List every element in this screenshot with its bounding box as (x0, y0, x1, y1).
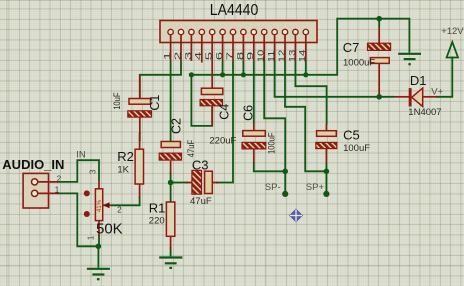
capacitor C2 (159, 142, 181, 175)
svg-text:10: 10 (257, 49, 266, 62)
wire connector pin2 to pot pin3 (57, 160, 99, 182)
capacitor C5 (316, 125, 337, 164)
wire pin8 stub (242, 61, 244, 75)
wire pin13 to C5 top (295, 61, 326, 125)
svg-text:1000uF: 1000uF (343, 58, 375, 69)
wire pin12 to SP+ (285, 61, 326, 171)
svg-text:1: 1 (55, 185, 60, 194)
wire pin6 stub (222, 61, 224, 75)
wire C2 bottom junction to R1 (170, 172, 172, 202)
wire pin1 to C2 (170, 61, 172, 142)
wire C5 bottom junction (325, 163, 327, 171)
wire B: pin3 to top-right ground rail (191, 19, 409, 75)
svg-text:2: 2 (173, 52, 182, 61)
svg-text:C4: C4 (217, 104, 231, 120)
svg-text:13: 13 (288, 49, 297, 62)
wire pin7 to C3 right (216, 61, 233, 183)
capacitor C7 (368, 27, 391, 97)
wire C7 top tap (378, 19, 380, 27)
svg-text:LA4440: LA4440 (210, 1, 259, 19)
ground (under R1) (159, 258, 182, 268)
diode D1 (394, 88, 437, 106)
svg-text:IN: IN (76, 150, 86, 161)
red dot marker upper (84, 190, 90, 196)
svg-text:9: 9 (246, 52, 255, 61)
svg-text:3: 3 (184, 52, 193, 61)
svg-text:C1: C1 (148, 95, 162, 111)
capacitor C1 (128, 75, 152, 134)
svg-text:SP+: SP+ (306, 182, 325, 193)
svg-text:3: 3 (87, 169, 97, 174)
wire A: C1 top to pin2 (140, 61, 181, 99)
wire pin14 stub (305, 61, 307, 75)
connector J1 AUDIO_IN (23, 173, 58, 208)
wire SP+ stub (325, 171, 327, 193)
wire pot bottom (98, 235, 100, 246)
svg-text:41%: 41% (97, 199, 103, 212)
svg-text:220uF: 220uF (209, 135, 236, 146)
svg-text:10uF: 10uF (111, 92, 122, 109)
svg-text:5: 5 (204, 52, 213, 61)
SP- terminal dot (282, 191, 288, 197)
resistor R2 (135, 134, 143, 198)
red dot marker lower (84, 211, 90, 217)
wire pin10 to SP- (264, 61, 285, 171)
capacitor C4 (200, 88, 223, 126)
wire R2 bottom to pot wiper (111, 196, 140, 205)
resistor R1 (166, 202, 174, 249)
svg-text:8: 8 (236, 52, 245, 61)
svg-text:100uF: 100uF (343, 143, 370, 154)
svg-text:R1: R1 (149, 201, 166, 216)
wire pin9 to C6 top (253, 61, 255, 124)
svg-text:220: 220 (149, 215, 165, 226)
svg-text:D1: D1 (410, 73, 427, 88)
svg-text:1K: 1K (117, 164, 129, 175)
pin leads 1-14 (171, 35, 306, 88)
svg-text:C6: C6 (242, 105, 256, 121)
wire junction to C3 left (171, 182, 188, 184)
wire D1 right to +12V (436, 75, 452, 97)
svg-text:2: 2 (117, 206, 122, 215)
svg-text:14: 14 (299, 49, 308, 62)
+12V power terminal (447, 42, 458, 75)
svg-text:SP-: SP- (265, 182, 281, 193)
capacitor C3 (186, 170, 218, 194)
svg-text:AUDIO_IN: AUDIO_IN (2, 157, 64, 172)
pin circles (168, 29, 309, 34)
wire pin3 down to C4 bottom (191, 75, 212, 126)
svg-text:V+: V+ (431, 86, 443, 97)
svg-text:C3: C3 (192, 157, 209, 172)
svg-text:11: 11 (267, 51, 276, 63)
svg-text:R2: R2 (117, 149, 134, 164)
wire pot junction to ground (97, 246, 99, 267)
svg-text:1N4007: 1N4007 (408, 107, 441, 118)
svg-text:12: 12 (278, 50, 287, 63)
ground (under pot) (87, 269, 110, 279)
svg-text:4: 4 (194, 52, 203, 61)
svg-text:1: 1 (85, 235, 95, 240)
svg-text:2: 2 (57, 174, 62, 183)
wire SP- stub (284, 171, 286, 193)
svg-text:7: 7 (225, 52, 234, 61)
capacitor C6 (242, 123, 266, 163)
wire R1 bottom to ground (170, 247, 172, 256)
potentiometer RV1 50K (95, 180, 111, 236)
svg-text:100uF: 100uF (266, 132, 277, 154)
svg-text:47uF: 47uF (185, 140, 196, 157)
blue origin marker (289, 209, 303, 223)
wire C1 bottom to R2 top (139, 132, 141, 142)
svg-text:C2: C2 (170, 118, 184, 134)
SP+ terminal dot (323, 191, 329, 197)
wire connector pin1 down (57, 193, 98, 246)
IC U1 LA4440 body (160, 21, 317, 43)
pin numbers (163, 49, 308, 62)
svg-text:47uF: 47uF (190, 196, 212, 207)
svg-text:6: 6 (215, 52, 224, 61)
svg-text:50K: 50K (96, 220, 123, 237)
svg-text:C5: C5 (343, 127, 360, 142)
ground (top right) (398, 54, 421, 64)
svg-text:1: 1 (163, 52, 172, 61)
svg-text:C7: C7 (343, 40, 360, 55)
wire C6 bottom to SP- junction (254, 162, 285, 171)
wire pin11 to D1 rail (275, 61, 394, 97)
svg-text:+12V: +12V (441, 26, 464, 37)
